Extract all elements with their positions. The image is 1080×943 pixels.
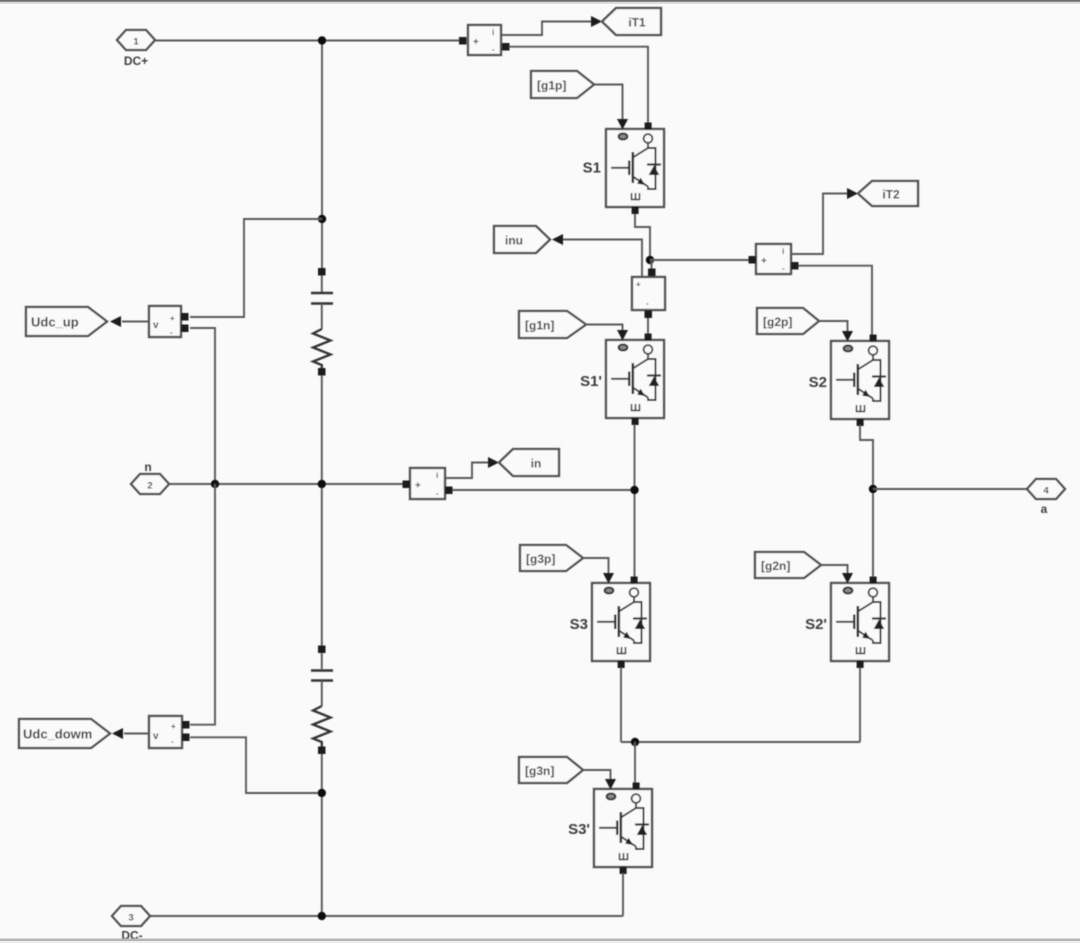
- wire in signal: [445, 463, 489, 479]
- svg-text:Udc_up: Udc_up: [31, 315, 79, 330]
- port 3 (DC-): [112, 906, 150, 943]
- port 1 (DC+): [117, 30, 155, 68]
- wire Udc_dowm output: [124, 733, 149, 735]
- svg-text:[g3n]: [g3n]: [525, 764, 554, 778]
- arrowhead into in: [488, 457, 499, 468]
- wire S1 emitter jog: [635, 214, 650, 260]
- svg-text:S2: S2: [809, 374, 827, 391]
- junction node a: [869, 485, 877, 493]
- wire S2' emitter down: [859, 668, 861, 743]
- svg-text:S1: S1: [583, 160, 601, 177]
- svg-text:+: +: [473, 37, 479, 48]
- junction lower node: [631, 738, 639, 746]
- arrowhead into iT2: [847, 188, 858, 199]
- wire S3 emitter down: [620, 668, 622, 743]
- wire inu signal tap: [563, 240, 642, 278]
- svg-text:+: +: [415, 481, 421, 492]
- from tag [g3p]: [520, 545, 583, 571]
- svg-text:S1': S1': [580, 373, 602, 390]
- wire DC- rail: [150, 915, 623, 917]
- junction node u top: [646, 256, 654, 264]
- svg-text:2: 2: [147, 481, 152, 492]
- arrowhead into Udc_dowm: [112, 728, 123, 739]
- transistor S2 (IGBT/Diode): [809, 331, 889, 426]
- from tag [g2n]: [755, 552, 821, 578]
- svg-text:4: 4: [1043, 486, 1049, 497]
- transistor S2' (IGBT/Diode): [805, 573, 889, 668]
- svg-text:+: +: [170, 314, 175, 323]
- capacitor C2 + resistor R2 (series RLC branch): [311, 646, 333, 755]
- current measurement U_in: [403, 468, 453, 499]
- wire Udc_up output: [122, 321, 149, 323]
- capacitor C1 + resistor R1 (series RLC branch): [311, 268, 333, 376]
- svg-text:3: 3: [128, 913, 133, 924]
- port 2 (n): [131, 460, 169, 494]
- transistor S1 (IGBT/Diode): [583, 119, 664, 214]
- svg-text:[g2n]: [g2n]: [761, 559, 790, 573]
- from tag [g3n]: [519, 757, 583, 783]
- goto tag Udc_dowm: [19, 719, 110, 748]
- current measurement U_iT2: [749, 244, 799, 274]
- svg-text:[g2p]: [g2p]: [763, 315, 792, 329]
- wire CM1 minus to S1 collector: [509, 47, 648, 123]
- wire g2p gate: [819, 321, 848, 331]
- wire Udc_dowm minus sense: [190, 737, 318, 793]
- screen bottom edge: [0, 939, 1080, 942]
- svg-text:-: -: [436, 489, 439, 498]
- wire Udc_up minus to neutral: [190, 328, 215, 484]
- junction DC+ bus tap: [318, 36, 326, 44]
- wire CM iT2 minus to S2 collector: [799, 266, 873, 335]
- wire g1n gate: [586, 325, 623, 331]
- wire DC bus mid segment: [321, 376, 323, 646]
- svg-text:i: i: [782, 247, 784, 256]
- wire node a rail: [873, 488, 1027, 490]
- svg-text:[g1n]: [g1n]: [525, 319, 554, 333]
- wire DC+ bus vertical top: [321, 41, 323, 269]
- svg-text:v: v: [153, 731, 159, 742]
- svg-text:-: -: [492, 45, 495, 54]
- svg-text:-: -: [646, 299, 649, 308]
- wire lower link rail: [621, 741, 860, 743]
- svg-text:[g1p]: [g1p]: [537, 79, 566, 93]
- transistor S3' (IGBT/Diode): [568, 779, 652, 874]
- goto tag iT2: [858, 181, 918, 206]
- voltage measurement Udc_dowm: [149, 716, 190, 748]
- svg-text:1: 1: [133, 37, 139, 48]
- wire iT1 signal: [501, 22, 592, 36]
- arrowhead into Udc_up: [110, 316, 121, 327]
- arrowhead into inu: [552, 234, 563, 245]
- wire g2n gate: [821, 565, 848, 573]
- svg-text:inu: inu: [505, 234, 523, 248]
- from tag [g2p]: [757, 308, 819, 334]
- wire lower node to S3' collector: [634, 742, 636, 783]
- wire CM inu to S1' collector: [647, 318, 649, 335]
- junction capacitor top node: [318, 215, 326, 223]
- svg-text:v: v: [153, 320, 159, 331]
- wire S2 emitter jog to node a: [860, 425, 873, 577]
- goto tag iT1: [602, 8, 661, 35]
- port 4 (a): [1027, 479, 1065, 516]
- junction midpoint node: [630, 486, 638, 494]
- goto tag Udc_up: [26, 307, 107, 336]
- svg-text:-: -: [171, 737, 174, 746]
- wire Udc_up + sense: [190, 219, 322, 317]
- svg-text:Udc_dowm: Udc_dowm: [23, 727, 92, 742]
- svg-text:+: +: [636, 280, 641, 289]
- wire g1p gate: [594, 85, 623, 120]
- junction DC- bus: [318, 912, 326, 920]
- svg-text:n: n: [144, 460, 151, 474]
- svg-text:S3: S3: [570, 616, 588, 633]
- from tag [g1n]: [519, 311, 586, 338]
- svg-text:[g3p]: [g3p]: [526, 552, 555, 566]
- transistor S3 (IGBT/Diode): [570, 573, 650, 668]
- wire DC bus bottom segment: [321, 754, 323, 916]
- svg-text:+: +: [761, 256, 767, 267]
- arrowhead into iT1: [591, 16, 602, 27]
- screen top edge: [0, 0, 1080, 2]
- svg-text:iT1: iT1: [628, 16, 646, 30]
- wire S1' emitter to S3 collector: [634, 425, 636, 578]
- wire neutral rail: [169, 483, 403, 485]
- junction Udc_dowm sense node: [318, 789, 326, 797]
- wire iT2 signal: [791, 194, 848, 255]
- svg-text:-: -: [170, 328, 173, 337]
- goto tag in: [499, 449, 559, 476]
- svg-text:i: i: [436, 471, 438, 480]
- current measurement U_inu (vertical): [632, 269, 665, 319]
- wire node u to CM iT2: [650, 259, 749, 261]
- junction neutral / Udc sense: [211, 480, 219, 488]
- svg-text:iT2: iT2: [882, 188, 900, 202]
- svg-text:in: in: [531, 457, 542, 471]
- svg-text:a: a: [1041, 502, 1048, 516]
- junction neutral / DC bus: [318, 480, 326, 488]
- wire node u to CM inu top: [651, 260, 653, 269]
- wire g3n gate: [583, 770, 611, 779]
- transistor S1' (IGBT/Diode): [580, 330, 664, 425]
- voltage measurement Udc_up: [149, 306, 189, 337]
- svg-text:i: i: [492, 28, 494, 37]
- svg-text:S3': S3': [568, 821, 590, 838]
- wire DC+ rail: [155, 40, 459, 42]
- svg-text:DC+: DC+: [124, 54, 148, 68]
- wire in minus to midpoint: [453, 489, 635, 491]
- goto tag inu: [494, 226, 550, 253]
- svg-text:+: +: [171, 722, 176, 731]
- current measurement U_iT1: [459, 25, 510, 55]
- svg-text:S2': S2': [805, 616, 827, 633]
- from tag [g1p]: [531, 71, 594, 98]
- wire g3p gate: [583, 558, 609, 573]
- svg-text:-: -: [782, 264, 785, 273]
- wire Udc_dowm plus to neutral: [190, 484, 215, 725]
- wire S3' emitter to DC- rail: [622, 873, 624, 916]
